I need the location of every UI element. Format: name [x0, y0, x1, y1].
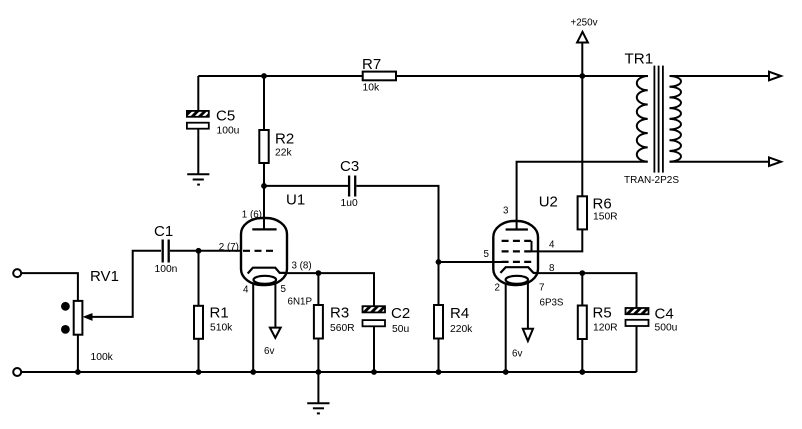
svg-text:4: 4 — [549, 240, 555, 251]
output arrow (bottom) — [769, 157, 781, 166]
wire U2 cathode to C4 — [538, 273, 637, 308]
node rail/R2 — [261, 73, 267, 79]
resistor R5 — [578, 306, 587, 340]
svg-text:3: 3 — [503, 206, 509, 217]
triode U1 envelope — [241, 218, 287, 285]
resistor R1 — [194, 306, 203, 339]
wire ground stem below rail — [317, 372, 319, 403]
node rail/R5 — [579, 369, 585, 375]
svg-text:R6: R6 — [593, 196, 612, 213]
svg-text:8: 8 — [549, 263, 555, 274]
potentiometer RV1 — [61, 301, 82, 335]
wire C3 right to R4 column — [356, 186, 438, 306]
svg-text:1u0: 1u0 — [341, 198, 358, 209]
transformer core — [654, 66, 663, 173]
svg-text:6v: 6v — [264, 346, 274, 357]
svg-text:C4: C4 — [655, 306, 674, 323]
svg-text:R4: R4 — [450, 305, 469, 322]
node C1/R1/U1 grid — [196, 248, 202, 254]
svg-text:R7: R7 — [362, 56, 381, 73]
svg-text:150R: 150R — [593, 212, 618, 223]
node rail/U2 pin2 — [503, 369, 509, 375]
transformer TR1 secondary coil — [670, 76, 681, 162]
resistor R4 — [434, 305, 443, 339]
wire R5 column — [581, 273, 583, 372]
wire U2 plate pin3 to primary bottom — [517, 162, 648, 230]
U1 cathode — [248, 268, 287, 274]
wire secondary bottom — [670, 161, 770, 163]
wire U1 heater pin5 — [274, 283, 276, 328]
svg-text:C3: C3 — [340, 158, 359, 175]
input terminal (top) — [13, 269, 21, 277]
RV1 wiper arrow — [84, 314, 92, 320]
capacitor C5 — [187, 111, 209, 129]
svg-text:C5: C5 — [216, 108, 235, 125]
capacitor C1 — [163, 240, 169, 263]
svg-text:4: 4 — [243, 285, 249, 296]
svg-text:500u: 500u — [655, 323, 678, 334]
wire U1 heater pin4 — [252, 283, 254, 373]
svg-text:6v: 6v — [512, 349, 522, 360]
wire U1 cathode to C2 — [287, 273, 374, 306]
wire C3 left — [264, 185, 348, 187]
svg-text:10k: 10k — [363, 83, 380, 94]
svg-text:22k: 22k — [275, 148, 292, 159]
wire R2 column (rail to U1 plate) — [263, 76, 265, 229]
resistor R7 — [363, 72, 396, 81]
svg-text:220k: 220k — [450, 324, 473, 335]
svg-text:6N1P: 6N1P — [288, 297, 313, 308]
resistor R3 — [314, 305, 323, 339]
wire +250v column to R6 — [581, 43, 583, 197]
resistor R6 — [578, 196, 587, 229]
wire C4 bottom — [636, 326, 638, 372]
wire RV1 wiper to C1 — [91, 251, 161, 317]
node rail/U1 pin4 — [250, 369, 256, 375]
svg-text:6P3S: 6P3S — [540, 298, 564, 309]
node U2 cathode/R5 — [579, 270, 585, 276]
beam tetrode U2 envelope — [493, 221, 538, 285]
wire C1 to U1 grid — [170, 250, 242, 252]
node C3/R4/U2 grid — [436, 259, 442, 265]
svg-text:U1: U1 — [286, 192, 305, 209]
svg-text:U2: U2 — [539, 194, 558, 211]
svg-text:50u: 50u — [392, 324, 409, 335]
node rail/R4 — [436, 369, 442, 375]
svg-text:120R: 120R — [593, 323, 618, 334]
U2 heater arch — [506, 276, 528, 284]
+250v supply arrow — [577, 32, 588, 43]
wire R3 column — [317, 273, 319, 372]
svg-text:C2: C2 — [391, 305, 410, 322]
svg-text:5: 5 — [484, 249, 490, 260]
svg-text:+250v: +250v — [571, 18, 598, 29]
svg-text:TRAN-2P2S: TRAN-2P2S — [624, 175, 679, 186]
resistor R2 — [259, 130, 268, 163]
node U1 cathode/R3 — [316, 270, 322, 276]
svg-text:100k: 100k — [91, 352, 114, 363]
6v heater arrow (U1) — [270, 328, 281, 338]
svg-text:3 (8): 3 (8) — [292, 261, 312, 272]
wire U2 heater pin7 — [527, 283, 529, 329]
wire input top to RV1 — [22, 273, 78, 301]
wire bottom rail — [22, 371, 637, 373]
input terminal (bottom) — [13, 368, 21, 376]
node rail/C2 — [371, 369, 377, 375]
wire R1 column — [198, 251, 200, 372]
capacitor C3 — [349, 176, 355, 197]
wire R4 bottom — [438, 339, 440, 372]
svg-text:RV1: RV1 — [90, 268, 119, 285]
svg-text:510k: 510k — [210, 323, 233, 334]
capacitor C2 — [363, 306, 386, 326]
svg-text:560R: 560R — [330, 323, 355, 334]
U2 anode plate — [506, 228, 528, 230]
svg-text:7: 7 — [539, 283, 544, 294]
capacitor C4 — [626, 308, 649, 326]
svg-text:R1: R1 — [210, 305, 229, 322]
6v heater arrow (U2) — [523, 329, 533, 341]
node rail/RV1 — [75, 369, 81, 375]
svg-text:C1: C1 — [154, 223, 173, 240]
output arrow (top) — [769, 72, 781, 81]
wire U2 grid pin5 — [439, 261, 503, 263]
svg-text:R3: R3 — [330, 305, 349, 322]
wire R6 bottom to screen grid pin4 — [532, 229, 583, 251]
wire U2 heater pin2 — [505, 283, 507, 373]
wire C5 top — [197, 76, 199, 111]
svg-text:5: 5 — [281, 284, 287, 295]
node R2/C3/U1 plate — [261, 183, 267, 189]
U2 grids (dashed rows) — [502, 241, 532, 262]
wire secondary top — [670, 75, 770, 77]
wire C5 bottom to ground — [197, 129, 199, 175]
ground (bottom, under R3) — [307, 403, 329, 413]
transformer TR1 primary coil — [637, 76, 648, 162]
svg-text:2: 2 — [495, 283, 500, 294]
svg-text:TR1: TR1 — [625, 51, 654, 68]
svg-text:1 (6): 1 (6) — [242, 210, 262, 221]
U1 anode plate — [252, 228, 276, 230]
node rail/R3-ground — [316, 369, 322, 375]
svg-text:100u: 100u — [217, 126, 240, 137]
node rail/R1 — [196, 369, 202, 375]
U1 heater arch — [253, 276, 276, 284]
wire C2 bottom — [373, 326, 375, 372]
ground (under C5) — [187, 174, 209, 184]
U1 grid (dashed) — [243, 250, 273, 252]
svg-text:R5: R5 — [593, 305, 612, 322]
U2 cathode — [500, 267, 538, 273]
svg-text:2 (7): 2 (7) — [219, 242, 239, 253]
wire RV1 bottom — [77, 335, 79, 372]
svg-text:R2: R2 — [275, 131, 294, 148]
svg-text:100n: 100n — [155, 264, 178, 275]
wire top rail — [198, 75, 648, 77]
node rail/+250v — [579, 73, 585, 79]
